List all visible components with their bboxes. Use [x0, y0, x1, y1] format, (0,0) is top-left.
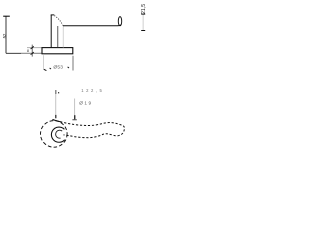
- svg-text:8: 8: [27, 49, 29, 53]
- svg-text:Ø53: Ø53: [53, 65, 63, 71]
- svg-text:122,5: 122,5: [81, 88, 104, 93]
- svg-text:Ø19: Ø19: [79, 101, 92, 106]
- svg-text:52: 52: [2, 33, 7, 38]
- svg-text:21,5: 21,5: [141, 4, 147, 14]
